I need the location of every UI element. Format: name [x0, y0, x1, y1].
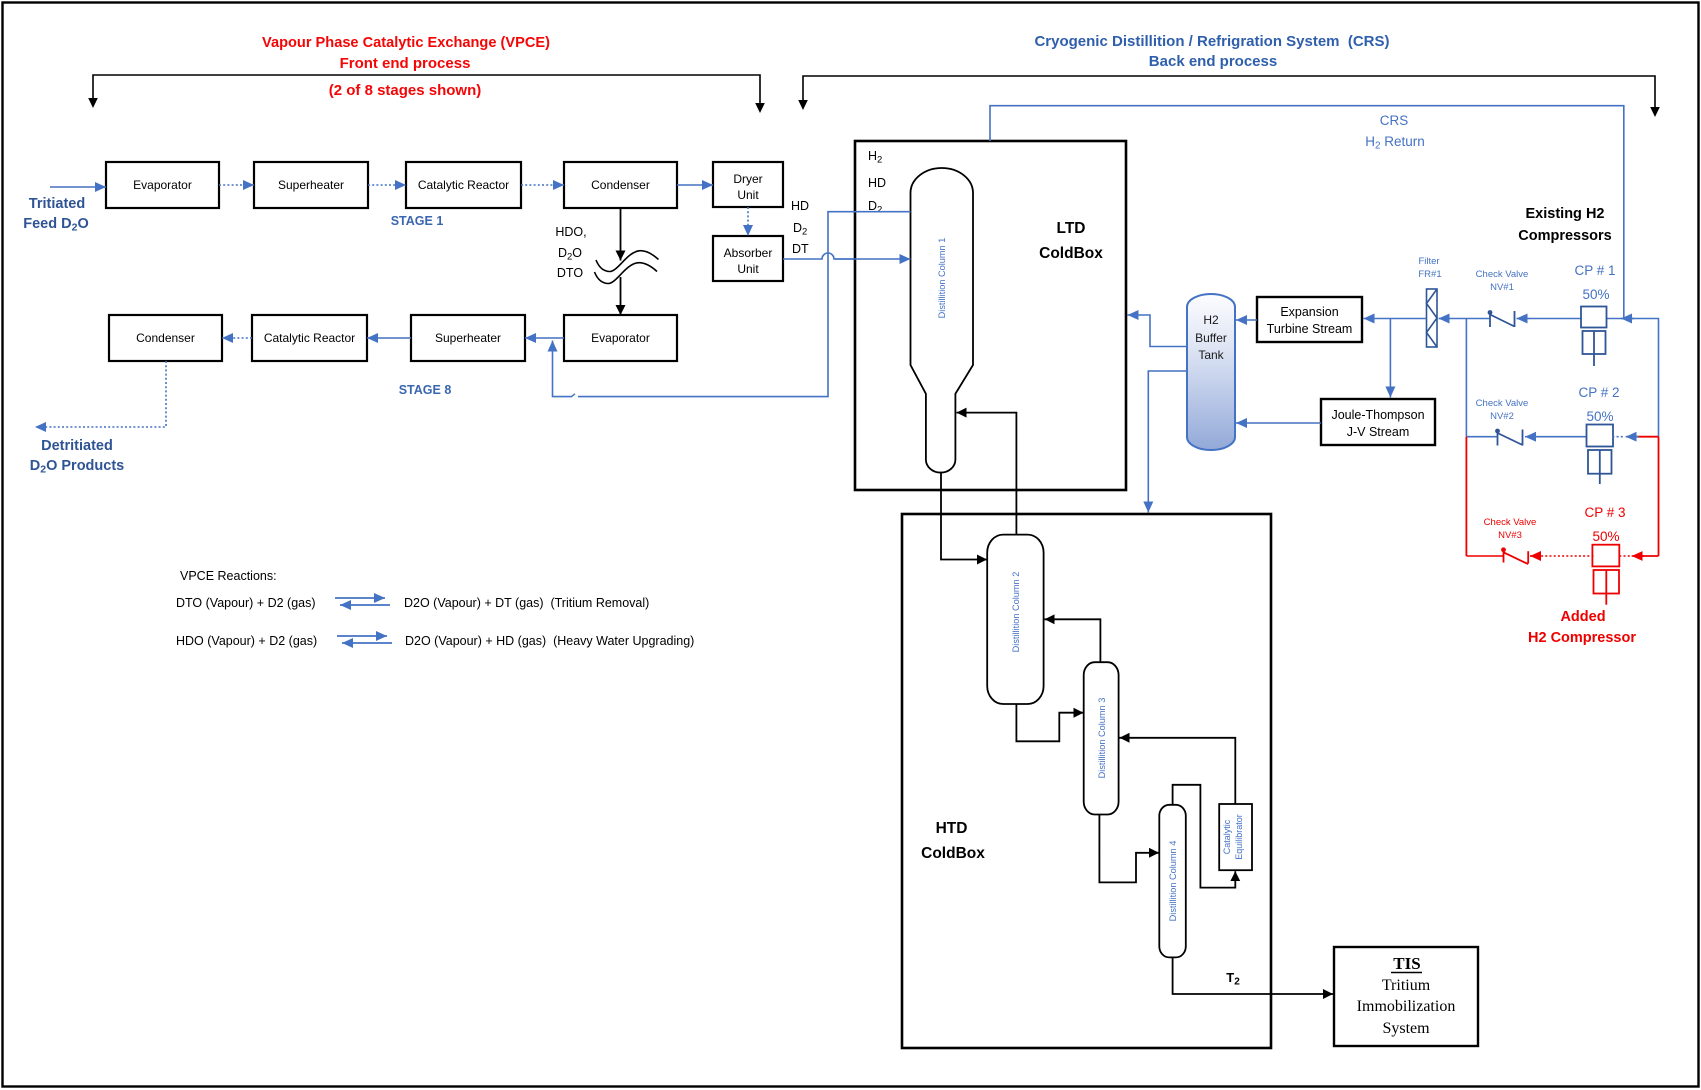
- svg-text:Joule-Thompson: Joule-Thompson: [1331, 408, 1424, 422]
- label check valve NV3: [1484, 517, 1537, 541]
- distillation column 2: [987, 535, 1043, 704]
- dryer unit box: [713, 162, 783, 207]
- evaporator stage1 box: [106, 162, 219, 208]
- wire evaporator8 to superheater8: [525, 337, 564, 339]
- wire check valve NV1 to filter: [1451, 318, 1489, 320]
- pipe column3 bottom to column4 left: [1099, 815, 1159, 883]
- svg-text:Distillition Column 1: Distillition Column 1: [937, 238, 947, 319]
- svg-text:Cryogenic Distillition / Refri: Cryogenic Distillition / Refrigration Sy…: [1034, 33, 1389, 50]
- svg-text:ColdBox: ColdBox: [1039, 245, 1103, 262]
- svg-text:D2O (Vapour) + DT (gas) (Trit: D2O (Vapour) + DT (gas) (Tritium Removal…: [404, 596, 649, 610]
- svg-text:Distillition Column 3: Distillition Column 3: [1097, 698, 1107, 779]
- svg-text:DTO: DTO: [557, 266, 583, 280]
- svg-text:J-V Stream: J-V Stream: [1347, 425, 1410, 439]
- wire blue dashed CP2 right stub: [1612, 436, 1623, 438]
- wire arrow into check valve NV1: [1517, 318, 1532, 320]
- pipe column4 top to catalytic equilibrator bottom: [1173, 785, 1236, 888]
- svg-text:HDO,: HDO,: [555, 225, 586, 239]
- svg-text:Front end process: Front end process: [340, 55, 471, 72]
- label HD D2 DT: [791, 199, 809, 256]
- svg-text:Back end process: Back end process: [1149, 53, 1277, 70]
- expansion turbine stream box: [1257, 297, 1362, 342]
- svg-text:Feed D2O: Feed D2O: [23, 216, 88, 234]
- wire feed arrow into evaporator 1: [50, 186, 106, 188]
- label detritiated D2O products: [30, 438, 124, 476]
- svg-text:Evaporator: Evaporator: [591, 331, 650, 345]
- catalytic reactor stage1 box: [406, 162, 521, 208]
- wire condenser1 to dryer unit: [677, 184, 713, 186]
- svg-text:Tank: Tank: [1198, 348, 1224, 362]
- superheater stage1 box: [254, 162, 368, 208]
- svg-text:Absorber: Absorber: [724, 246, 773, 260]
- svg-text:STAGE 1: STAGE 1: [391, 214, 444, 228]
- label existing H2 compressors: [1518, 206, 1611, 244]
- pipe column4 bottom to TIS: [1173, 957, 1333, 994]
- TIS box: [1334, 947, 1478, 1046]
- wire liquid return from column1 down to stage8 level: [578, 212, 911, 397]
- svg-text:Superheater: Superheater: [278, 178, 344, 192]
- svg-text:50%: 50%: [1586, 409, 1613, 424]
- svg-text:Tritium: Tritium: [1382, 977, 1431, 994]
- wire main line CP1 to expansion turbine box: [1531, 318, 1581, 320]
- label CP2: [1578, 385, 1619, 424]
- svg-text:Unit: Unit: [737, 188, 759, 202]
- label filter FR1: [1418, 256, 1441, 280]
- svg-text:Distillition Column 4: Distillition Column 4: [1168, 841, 1178, 922]
- wire catalytic reactor8 to condenser8: [222, 337, 252, 339]
- wire branch down to joule-thompson box: [1389, 319, 1391, 398]
- svg-text:HDO (Vapour) + D2 (gas): HDO (Vapour) + D2 (gas): [176, 634, 317, 648]
- wire arrow into filter FR1: [1439, 318, 1452, 320]
- label tritiated feed D2O: [23, 196, 88, 234]
- check valve NV2: [1495, 429, 1522, 446]
- compressor CP1: [1581, 307, 1607, 367]
- wire H2 buffer tank to HTD coldbox: [1148, 371, 1187, 513]
- svg-text:Expansion: Expansion: [1280, 305, 1338, 319]
- svg-text:Catalytic Reactor: Catalytic Reactor: [418, 178, 509, 192]
- HTD coldbox: [902, 514, 1271, 1048]
- svg-text:HD: HD: [791, 199, 809, 213]
- wire break tick on return line: [572, 394, 576, 397]
- pipe column3 top to column2 right: [1045, 619, 1101, 662]
- catalytic reactor stage8 box: [252, 315, 367, 361]
- superheater stage8 box: [411, 315, 525, 361]
- svg-text:System: System: [1382, 1020, 1430, 1037]
- svg-text:STAGE 8: STAGE 8: [399, 383, 452, 397]
- CRS span bracket: [803, 76, 1655, 109]
- wire arrow into check valve NV2: [1525, 436, 1545, 438]
- svg-text:D2O (Vapour) + HD (gas) (Heav: D2O (Vapour) + HD (gas) (Heavy Water Upg…: [405, 634, 694, 648]
- svg-text:CP # 1: CP # 1: [1574, 263, 1615, 278]
- svg-text:Catalytic Reactor: Catalytic Reactor: [264, 331, 355, 345]
- check valve NV1: [1488, 310, 1515, 327]
- wire expansion turbine to H2 buffer tank: [1236, 319, 1257, 321]
- wire check valve NV2 to junction: [1466, 436, 1497, 438]
- svg-text:H2 Compressor: H2 Compressor: [1528, 630, 1636, 646]
- wire filter to expansion turbine box: [1364, 318, 1427, 320]
- evaporator stage8 box: [564, 315, 677, 361]
- svg-text:Condenser: Condenser: [591, 178, 650, 192]
- svg-text:Distillition Column 2: Distillition Column 2: [1011, 572, 1021, 653]
- svg-text:DTO (Vapour) + D2 (gas): DTO (Vapour) + D2 (gas): [176, 596, 316, 610]
- pipe column1 bottom to column2: [941, 473, 987, 560]
- svg-text:Evaporator: Evaporator: [133, 178, 192, 192]
- label added H2 compressor: [1528, 609, 1636, 646]
- svg-text:Check Valve: Check Valve: [1476, 398, 1529, 409]
- svg-text:CRS: CRS: [1380, 113, 1409, 128]
- wire return line left segment into evaporator8 feed: [553, 341, 573, 397]
- svg-text:Detritiated: Detritiated: [41, 438, 113, 454]
- svg-text:NV#3: NV#3: [1498, 530, 1522, 541]
- svg-text:(2 of 8 stages shown): (2 of 8 stages shown): [329, 82, 482, 99]
- H2 buffer tank: [1187, 294, 1235, 450]
- wire red arrow into CP3: [1632, 555, 1644, 557]
- wire dryer unit to absorber unit: [747, 207, 749, 236]
- pipe condenser1 down to break: [620, 208, 622, 261]
- svg-text:Buffer: Buffer: [1195, 331, 1227, 345]
- pipe break to evaporator8: [620, 277, 622, 315]
- wire CP2 to check valve NV2: [1545, 436, 1587, 438]
- svg-text:50%: 50%: [1592, 529, 1619, 544]
- svg-text:CP # 3: CP # 3: [1584, 505, 1625, 520]
- pipe column2 bottom to column3 left: [1016, 704, 1083, 741]
- wire superheater1 to catalytic reactor1: [368, 184, 406, 186]
- wire red down to CP3 level: [1658, 437, 1660, 556]
- wire red dashed CP3 right stub: [1619, 555, 1630, 557]
- wire arrow into CP1 from CRS line: [1621, 318, 1634, 320]
- wire red junction vertical NV2 to NV3: [1465, 437, 1467, 556]
- wire CRS line extension to CP2 drop: [1607, 319, 1659, 437]
- wire liquid return re-draw inside LTD: [853, 211, 911, 213]
- svg-text:Immobilization: Immobilization: [1357, 998, 1456, 1015]
- wire absorber arrow re-draw over column edge: [835, 258, 911, 260]
- svg-text:CP # 2: CP # 2: [1578, 385, 1619, 400]
- svg-text:Unit: Unit: [737, 262, 759, 276]
- wire blue arrow into CP2 right: [1626, 436, 1639, 438]
- wire absorber unit to distillation column 1 with hop: [783, 253, 911, 259]
- svg-text:HTD: HTD: [936, 820, 968, 837]
- svg-text:Check Valve: Check Valve: [1484, 517, 1537, 528]
- distillation column 1: [911, 168, 974, 473]
- svg-text:Check Valve: Check Valve: [1476, 269, 1529, 280]
- svg-text:H2: H2: [1203, 313, 1219, 327]
- svg-text:Turbine Stream: Turbine Stream: [1267, 322, 1353, 336]
- pipe catalytic equilibrator top to column3 right: [1120, 738, 1236, 804]
- wire red NV3 line left segment: [1466, 555, 1503, 557]
- svg-text:NV#1: NV#1: [1490, 282, 1514, 293]
- label H2 HD D2 inside LTD: [868, 149, 886, 216]
- label CRS H2 return: [1365, 113, 1425, 152]
- svg-text:Existing H2: Existing H2: [1526, 206, 1605, 222]
- svg-text:NV#2: NV#2: [1490, 411, 1514, 422]
- title CRS back end process: [1034, 33, 1389, 70]
- svg-text:Added: Added: [1560, 609, 1605, 625]
- svg-text:Condenser: Condenser: [136, 331, 195, 345]
- svg-text:TIS: TIS: [1393, 954, 1420, 973]
- wire H2 buffer tank to LTD coldbox: [1128, 315, 1188, 347]
- title VPCE front end process: [262, 35, 550, 99]
- wire catalytic reactor1 to condenser1: [521, 184, 564, 186]
- wire junction down to NV2 line: [1465, 319, 1467, 437]
- reaction 2 equilibrium arrows: [337, 636, 392, 643]
- wire evaporator1 to superheater1: [219, 184, 254, 186]
- svg-text:Tritiated: Tritiated: [29, 196, 85, 212]
- svg-text:Filter: Filter: [1418, 256, 1439, 267]
- wire CRS H2 return from LTD top: [990, 106, 1624, 319]
- distillation column 3: [1084, 662, 1119, 814]
- compressor CP2: [1587, 425, 1614, 485]
- svg-text:Vapour Phase Catalytic Exchang: Vapour Phase Catalytic Exchange (VPCE): [262, 35, 550, 51]
- label check valve NV1: [1476, 269, 1529, 293]
- svg-text:ColdBox: ColdBox: [921, 845, 985, 862]
- wire condenser8 to detritiated products: [35, 361, 166, 427]
- svg-text:LTD: LTD: [1057, 220, 1086, 237]
- condenser stage1 box: [564, 162, 677, 208]
- compressor CP3: [1592, 545, 1619, 605]
- label HDO D2O DTO: [555, 225, 586, 280]
- filter FR1: [1427, 289, 1438, 347]
- absorber unit box: [713, 236, 783, 281]
- check valve NV3: [1501, 547, 1528, 564]
- wire red dashed CP3 to NV3 arrow: [1539, 555, 1594, 557]
- label CP3: [1584, 505, 1625, 544]
- reaction 1 equilibrium arrows: [335, 598, 390, 605]
- pipe column2 top to column1 neck: [957, 413, 1017, 535]
- svg-text:Dryer: Dryer: [733, 172, 762, 186]
- condenser stage8 box: [109, 315, 222, 361]
- catalytic equilibrator: [1219, 804, 1252, 870]
- svg-text:FR#1: FR#1: [1418, 269, 1441, 280]
- svg-text:50%: 50%: [1582, 287, 1609, 302]
- svg-text:Compressors: Compressors: [1518, 228, 1611, 244]
- svg-text:DT: DT: [792, 242, 809, 256]
- svg-text:VPCE Reactions:: VPCE Reactions:: [180, 569, 277, 583]
- wire red line corner to CP2: [1627, 436, 1659, 438]
- distillation column 4: [1159, 805, 1186, 958]
- wire joule-thompson to H2 buffer tank: [1236, 422, 1321, 424]
- label check valve NV2: [1476, 398, 1529, 422]
- stream break wavy symbol: [595, 251, 659, 284]
- wire red solid corner to CP3 arrow: [1642, 555, 1659, 557]
- svg-text:H2 Return: H2 Return: [1365, 134, 1425, 152]
- svg-text:Equilibrator: Equilibrator: [1234, 814, 1244, 860]
- svg-text:Catalytic: Catalytic: [1222, 819, 1232, 854]
- wire superheater8 to catalytic reactor8: [367, 337, 411, 339]
- wire red arrow into NV3: [1530, 555, 1541, 557]
- VPCE span bracket: [93, 75, 760, 105]
- svg-text:HD: HD: [868, 176, 886, 190]
- LTD coldbox: [855, 141, 1126, 490]
- joule-thompson box: [1321, 399, 1435, 445]
- label CP1: [1574, 263, 1615, 302]
- svg-text:Superheater: Superheater: [435, 331, 501, 345]
